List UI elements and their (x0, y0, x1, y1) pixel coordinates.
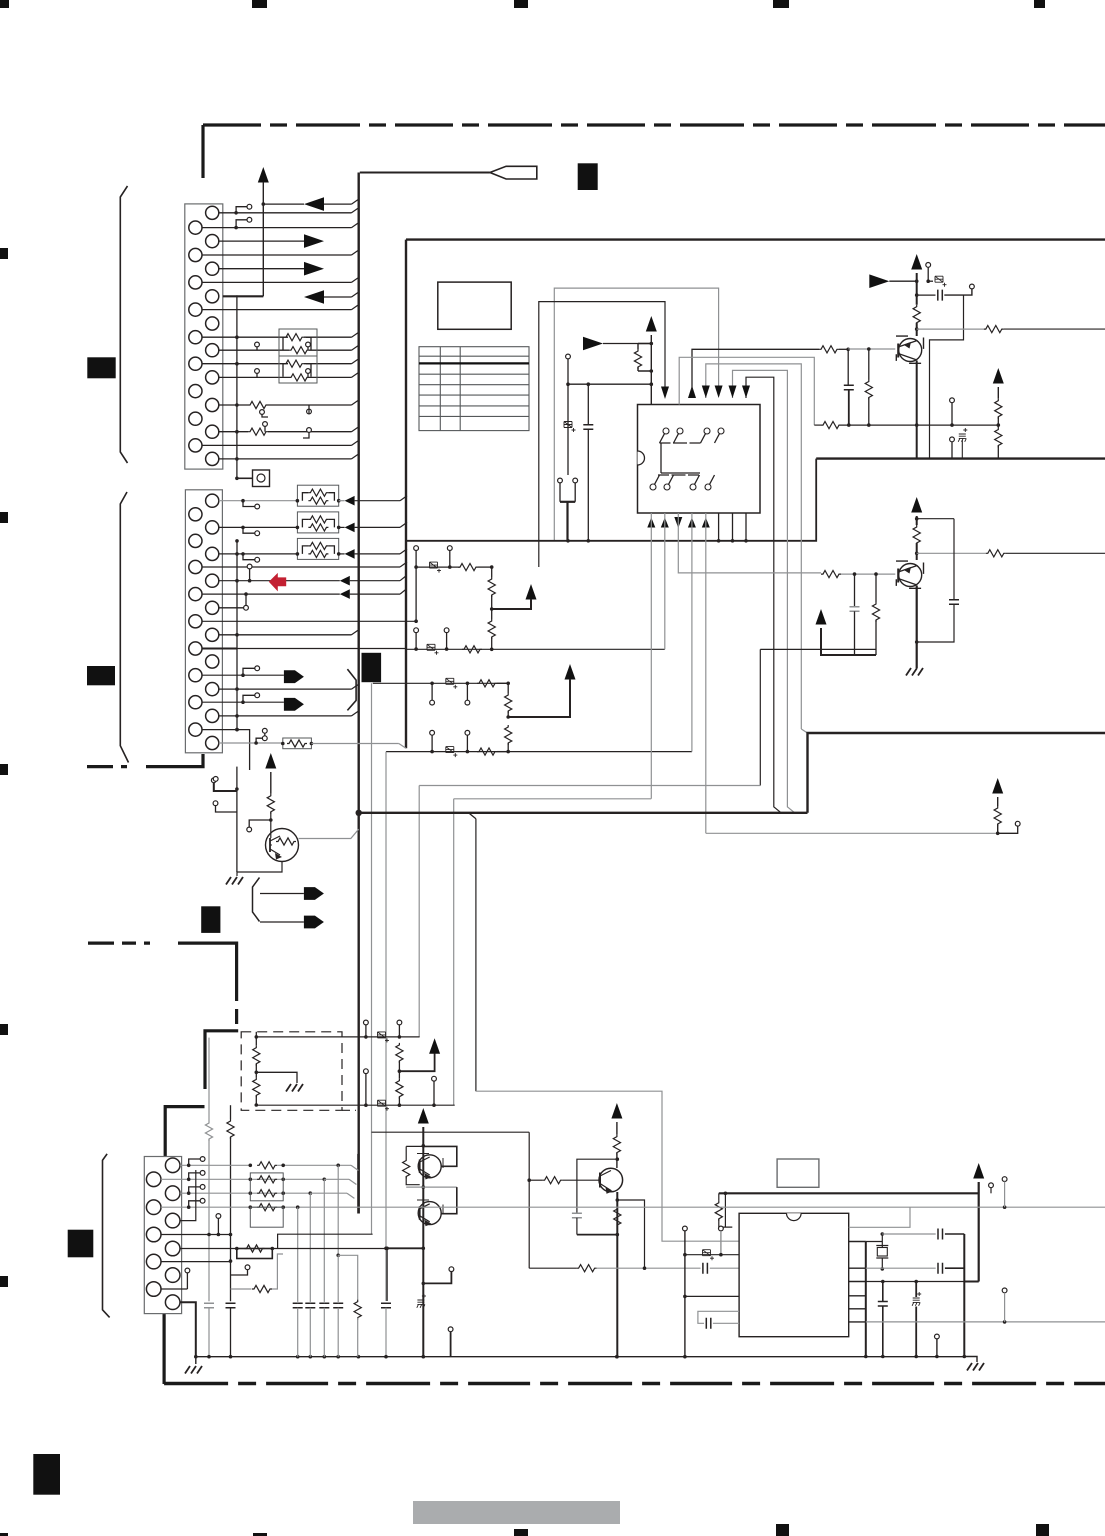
registration marks top (0, 0, 9, 8)
CN3 row R1 (180, 1164, 250, 1166)
resistor pack box A (279, 329, 317, 356)
wire arrow row y=204 (263, 203, 304, 205)
divider resistor upper in dashed box (255, 1032, 257, 1046)
wire2 TP stubs (364, 1069, 369, 1074)
riser x=419.2 down to wire1 (418, 786, 420, 1037)
arrow right R3 (304, 262, 324, 276)
wire CN2 R3 + pack + arrow (219, 553, 298, 555)
pin 705 nested line (706, 364, 802, 729)
wire CN1 L4 (202, 309, 352, 311)
connector CN3 pin L4 (146, 1254, 161, 1269)
TP R2 (189, 1187, 201, 1193)
wire CN1 L5 w resistor (202, 336, 284, 338)
connector CN3 pin R6 (165, 1295, 180, 1310)
board boundary dash-dot top corner (201, 125, 204, 178)
supply arrow IC2 (973, 1163, 984, 1179)
CN3 row L3 (161, 1234, 231, 1236)
CN3 row R3 riser (180, 1170, 196, 1221)
connector CN2 pin R8 (206, 683, 219, 696)
wire CN2 L6 thick stub / row2 line (202, 648, 237, 650)
connector CN2 pin L7 (189, 669, 202, 682)
closing brace right of arrows (347, 669, 356, 710)
CN3 row L4 (161, 1261, 231, 1263)
path to IC2 pin via x=662 (476, 1091, 740, 1241)
trimmer row2 wire (from CN2 L6) (237, 648, 665, 651)
connector CN2 pin L6 (189, 642, 202, 655)
resistor pack box B (279, 356, 317, 383)
gray drop row4 to cap to bus (385, 752, 387, 1301)
connector CN1 body (185, 204, 223, 469)
cap drop x=387 (386, 1248, 388, 1301)
pin 679 nested line (679, 357, 814, 425)
connector CN2 pin R6 (206, 628, 219, 641)
row2 TPs (414, 628, 419, 633)
connector CN2 pin R9 (206, 709, 219, 722)
dashed stub right of box (342, 1109, 356, 1111)
parts table (419, 347, 529, 431)
special ground small (417, 1294, 426, 1308)
Q1 base bias wire (848, 348, 895, 350)
connector CN2 pin L3 (189, 560, 202, 573)
cap drop x=588.3 (587, 384, 589, 425)
TP left of resistor (247, 827, 252, 832)
IC2 right pin row A to gray wire (849, 1207, 910, 1227)
wire sensor to rail (237, 477, 253, 479)
IC2 right stubs (849, 1241, 866, 1243)
lower resistor row (231, 1288, 252, 1290)
pin 719 arrow (715, 386, 723, 399)
resistor pair x=998.3 (995, 399, 1002, 419)
link wire y=1234.2 (278, 1234, 373, 1248)
connector CN2 pin L9 (189, 723, 202, 736)
wire CN2 R4 with red arrow and left arrow (219, 580, 340, 582)
TP right (970, 284, 975, 289)
Q2 pin ticks (896, 561, 924, 588)
row3 resistor (477, 680, 497, 687)
gray drop row3 to link wire (371, 683, 373, 1234)
gray drop x=209 (208, 1038, 210, 1121)
cap row y=295.1 (917, 294, 936, 296)
trimmer cap top row (928, 280, 933, 282)
gray wire y=1321.9 to right edge (866, 1321, 1105, 1323)
node wire y=384.2 (568, 383, 651, 385)
TP at 803 (213, 801, 218, 806)
signal flag connector at top (490, 166, 537, 179)
row3 TPs below (431, 683, 433, 700)
CN3 row R4 boxed resistor (180, 1248, 237, 1250)
Q1 vert through transistor (916, 361, 918, 459)
divider resistor lower in dashed box (253, 1077, 260, 1097)
connector CN2 pin R5 (206, 601, 219, 614)
cap row 2 y=1268.2 (866, 1267, 936, 1269)
cluster box right edge down (528, 1132, 530, 1268)
row4 TPs above (430, 730, 435, 735)
connector CN3 pin R3 (165, 1213, 180, 1228)
trimmer row1 wire (416, 566, 460, 568)
test points row 405 (260, 410, 265, 415)
connector CN1 pin R9 (206, 425, 219, 438)
board boundary thick vertical below connector3 (163, 1314, 166, 1384)
TP pair left (211, 778, 216, 783)
arm to ground in dashed box (256, 1072, 297, 1083)
bus vertical x=358.7 (358, 173, 360, 1214)
Q5 collector loop (441, 1187, 457, 1214)
IC1 bottom arrows and drops (647, 518, 655, 528)
rail x=236.9 CN1 (236, 295, 238, 478)
thick up arrow above cluster (418, 1108, 429, 1124)
test points pack A (255, 342, 260, 347)
trimmer row4 wire to IC pin riser (386, 751, 692, 753)
IC2 body (739, 1213, 849, 1336)
row3 divider resistor upper (505, 693, 512, 713)
row1 divider resistor upper (488, 577, 495, 597)
gray return y=785.5 (419, 785, 760, 787)
connector CN2 pin R3 (206, 547, 219, 560)
pin 692 up arrow + line to T1 base resistor (692, 349, 819, 390)
CN3 row L5 TP (161, 1288, 187, 1290)
test point R2 CN2 (243, 527, 255, 533)
TP on supply wire (989, 1183, 994, 1188)
connector CN1 pin L3 (189, 276, 202, 289)
white label box above table (438, 282, 511, 329)
connector CN2 pin R7 (206, 655, 219, 668)
connector CN3 pin R1 (165, 1158, 180, 1173)
collector resistor T1 (913, 305, 920, 325)
connector CN1 pin R6 (206, 344, 219, 357)
supply arrow right pair (993, 368, 1004, 384)
thick rail y=812.8 (359, 812, 808, 814)
wire y=649.4 right (760, 648, 876, 650)
trimmer row into pin L2 (685, 1254, 739, 1256)
transistor Q1 (899, 339, 922, 362)
trimmer row3 wire (373, 682, 508, 684)
CN3 row R6 thick down to bus (180, 1302, 196, 1357)
arrow right big 2 (284, 698, 304, 711)
connector CN3 pin R2 (165, 1186, 180, 1201)
arrow right into supply node (869, 274, 889, 288)
connector CN1 pin R2 (206, 235, 219, 248)
connector CN3 body (144, 1157, 181, 1314)
trimmer row1 resistor (458, 564, 478, 571)
black label box mid (362, 653, 382, 682)
arrow right into node 343.5 (583, 337, 603, 351)
Q4 base resistor (405, 1146, 407, 1158)
bias wire y=425.1 (814, 424, 821, 426)
black label box connector3 (68, 1230, 94, 1258)
wire2 y=1105 (256, 1104, 454, 1106)
row2 resistor (462, 646, 482, 653)
junction bus / thick rail y=812.8 (356, 810, 362, 816)
connector CN1 pin L4 (189, 303, 202, 316)
arrow left row 297 (304, 290, 324, 304)
connector CN2 pin L8 (189, 696, 202, 709)
test point stub below L4 (244, 592, 248, 596)
connector CN1 pin R7 (206, 371, 219, 384)
wire y=1268.2 across (529, 1267, 576, 1269)
TP + special ground above rail (950, 437, 955, 442)
trimmer row1 TP right (447, 546, 452, 551)
resistor pack boxes CN3 (250, 1173, 283, 1201)
gray footer label box (413, 1501, 620, 1524)
mid node gray (406, 1186, 457, 1188)
connector CN1 pin R8 (206, 398, 219, 411)
connector CN2 body (185, 490, 222, 753)
IC1 top pin arrows (661, 387, 669, 400)
wire CN2 L8 to arrow (202, 701, 284, 703)
wire CN2 R8 (219, 688, 352, 690)
test points row R10 (262, 728, 267, 733)
wire CN2 R2 + pack + arrow (219, 526, 298, 528)
resistor below supply wire (718, 1193, 720, 1201)
cluster box top (372, 1131, 530, 1133)
TP L2 (189, 1201, 201, 1207)
connector CN2 pin L5 (189, 615, 202, 628)
wire CN2 R10 boxed resistor row (219, 742, 283, 744)
output wire y=553.3 (917, 552, 986, 554)
thick CN2-style bus segment x=358.5 lower (357, 1154, 359, 1214)
wire CN2 R5 short (219, 607, 244, 609)
wire1 divider resistor upper (396, 1043, 403, 1063)
pin L4 wire (685, 1295, 739, 1297)
connector CN1 pin L1 (189, 221, 202, 234)
connector CN1 pin L6 (189, 357, 202, 370)
wire CN2 L4 with arrow (202, 593, 340, 595)
connector CN3 pin R4 (165, 1241, 180, 1256)
up arrow + resistor above Q3 (265, 753, 276, 769)
pullup resistor + arrow right side (992, 778, 1003, 794)
connector CN2 pin R1 (206, 494, 219, 507)
bypass cap x=882.8 (882, 1282, 884, 1302)
gray L1 bus-to-pin719 (554, 288, 718, 541)
white label box above IC2 (777, 1159, 819, 1187)
feedback cap right (917, 518, 954, 520)
wire CN2 R6 (219, 634, 352, 636)
thick supply wire above IC2 (719, 1192, 979, 1194)
test point L7 (243, 668, 255, 675)
pin 746 nested line black (746, 377, 781, 813)
connector CN1 pin L8 (189, 412, 202, 425)
bus vertical x=406 enclosure edge (405, 240, 407, 749)
gray wire y=1207 to right edge (910, 1206, 1105, 1208)
test point L8 (243, 695, 255, 702)
Q3 collector wire to bus jog (299, 829, 359, 838)
Q3 internal resistor (276, 838, 296, 845)
bus hook to ground right (964, 1357, 977, 1363)
connector CN1 pin R5 (206, 317, 219, 330)
arrows to lower right flags (260, 893, 304, 895)
gray wire y=833 with pullup (706, 832, 998, 834)
black label box connector2 (87, 666, 115, 685)
Q4 collector loop (423, 1146, 457, 1166)
wire CN2 R9 (219, 715, 352, 717)
connector CN2 pin L2 (189, 534, 202, 547)
TP column x=568 (566, 354, 571, 359)
black label box lower-mid (201, 906, 220, 933)
up arrow at x=651 top (646, 316, 657, 332)
gray wire to resistor drop (338, 1255, 358, 1299)
TP above supply (926, 263, 931, 268)
connector CN3 pin L3 (146, 1227, 161, 1242)
connector CN1 pin L9 (189, 439, 202, 452)
thick rail y=458.6 to right edge (816, 457, 1105, 459)
wire CN1 L9 (202, 444, 352, 446)
registration marks left (0, 248, 8, 259)
wire CN1 R2 to arrow (219, 240, 304, 242)
emitter resistor (614, 1207, 621, 1227)
connector CN3 pin R5 (165, 1268, 180, 1283)
black label box bottom-left (33, 1454, 60, 1495)
wire CN2 L7 to arrow (202, 674, 284, 676)
wire CN2 L9 corner down (202, 730, 250, 770)
board boundary staircase bottom-left (205, 1031, 238, 1089)
connector CN2 pin L1 (189, 508, 202, 521)
special ground drop x=916.2 (915, 1282, 917, 1298)
board boundary dash-dot at connector2 bottom (87, 765, 127, 768)
wire CN2 L5 to riser (202, 620, 416, 622)
enclosure top line (406, 238, 1105, 240)
wire CN1 R8 w resistor (219, 404, 248, 406)
connector CN1 pin L5 (189, 331, 202, 344)
test point R1 (236, 207, 247, 213)
elbow from supply arrow drop (964, 1281, 978, 1283)
Q2 base wire w resistor (821, 571, 841, 578)
IC1 internal switches bottom row (650, 484, 656, 490)
Q2 emitter to ground (916, 586, 918, 669)
test points pack B (255, 369, 260, 374)
wire CN1 L2 (202, 254, 352, 256)
IC1 bottom stubs to supply (718, 513, 720, 541)
row1 arm to up-arrow (526, 584, 537, 600)
transistor Q5 (418, 1202, 441, 1225)
rail right of IC2 (865, 1242, 867, 1357)
wire CN1 L1 (202, 227, 352, 229)
x=237 to transistor region (236, 791, 238, 872)
board boundary dash-dot mid-left 2 (88, 941, 150, 944)
test point L1 (236, 220, 247, 228)
IC1 body (638, 405, 761, 514)
TP L1 (189, 1173, 201, 1179)
vertical riser x=263.3 with up arrow (258, 167, 269, 183)
bias cap x=849.1 (847, 349, 849, 385)
TP lower with stub (213, 777, 218, 782)
output wire y=329.1 to right edge (917, 328, 984, 330)
board boundary dash-dot bottom edge (164, 1382, 1105, 1386)
connector CN2 pin R2 (206, 521, 219, 534)
dashed box (241, 1032, 342, 1111)
emitter tap right (617, 1200, 644, 1268)
CN3 row R2 (180, 1192, 310, 1194)
wire CN1 R4 thick to riser (223, 295, 263, 297)
wire CN2 R1 + resistor pack + arrow left (219, 500, 298, 502)
row D wire (866, 1281, 979, 1283)
TP on L3 (216, 1214, 221, 1219)
rail x=237 CN2 (236, 541, 238, 730)
riser x=453.7 to wire2 (453, 799, 455, 1105)
brace CN3 (103, 1154, 110, 1318)
pins L5 L6 cap loop (698, 1311, 739, 1323)
black drop x=230.5 (230, 1105, 232, 1119)
wire CN1 R1 (219, 212, 352, 214)
wire CN1 R10 (219, 458, 352, 460)
TP pair mid (245, 1265, 250, 1270)
feedback path down-left (930, 295, 964, 459)
thick drop x=964.3 (963, 1234, 965, 1357)
connector CN3 pin L5 (146, 1282, 161, 1297)
wire1 divider resistor lower (396, 1079, 403, 1099)
L2 pin665 loop (539, 302, 665, 567)
row4 resistor (477, 748, 497, 755)
IC1 internal switches top row (663, 428, 669, 434)
jog into bus2 end (399, 744, 406, 749)
black label box top-center (578, 163, 598, 190)
TP stub to bus (935, 1334, 940, 1339)
bus exit jog to x=475.9 (469, 813, 476, 819)
test point R3 CN2 (243, 554, 255, 560)
pin 732 nested line (733, 370, 795, 812)
ground bus y=1356.7 (196, 1356, 965, 1358)
photo sensor symbol (253, 470, 270, 487)
TP above right (1002, 1177, 1007, 1182)
trimmer row1 TP left (414, 546, 419, 551)
fork terminals bottom (558, 478, 563, 483)
power bus y=541 to right rail (406, 459, 816, 541)
wire flag to bus corner (360, 172, 490, 174)
CN3 row L2 long to right (161, 1206, 910, 1208)
supply up arrow T1 (911, 254, 922, 270)
connector CN1 pin R1 (206, 206, 219, 219)
brace CN2 (120, 492, 128, 763)
test point stub above R4 (247, 564, 252, 569)
arrow right R2 (304, 234, 324, 248)
bias resistor x=868.8 (868, 349, 870, 380)
wire CN2 L3 long (202, 566, 400, 568)
red block arrow (269, 573, 286, 592)
base cap x=854.5 (854, 574, 856, 607)
test points row 432 (263, 422, 268, 427)
Q3 emitter to ground (237, 862, 282, 877)
board boundary dash-dot top edge (203, 123, 1105, 126)
connector CN1 pin R4 (206, 290, 219, 303)
registration marks bottom (0, 1533, 8, 1536)
riser x=760.5 down (759, 649, 761, 785)
transistor Q2 (899, 564, 922, 587)
brace CN1 (120, 186, 127, 463)
supply arrow T3 (611, 1103, 622, 1119)
connector CN1 pin L2 (189, 248, 202, 261)
black label box connector1 (87, 357, 115, 378)
row3 arm to up-arrow (565, 664, 576, 680)
up arrow bias T2 (816, 609, 827, 625)
gray return y=798.8 (454, 798, 652, 800)
wire CN1 R9 w resistor (219, 431, 248, 433)
arrow left into row 204 (304, 197, 324, 211)
TP with stub to bus (448, 1327, 453, 1332)
caps row bottom (293, 1303, 303, 1308)
collector resistor T3 (613, 1135, 620, 1155)
wire CN1 R6 w resistor (219, 349, 289, 351)
rail x=237 segment (236, 767, 238, 791)
wire1 y=1036.9 (256, 1036, 419, 1038)
feedback cap branch (577, 1159, 617, 1213)
connector CN1 pin L7 (189, 385, 202, 398)
wire CN1 L6 w resistor (202, 363, 284, 365)
Q1 pin ticks (896, 336, 924, 363)
wire1 components (364, 1020, 369, 1025)
Q6 emitter down (616, 1192, 618, 1357)
row1 divider resistor lower (488, 619, 495, 639)
brace small (253, 878, 260, 922)
TP R1 (189, 1159, 201, 1165)
